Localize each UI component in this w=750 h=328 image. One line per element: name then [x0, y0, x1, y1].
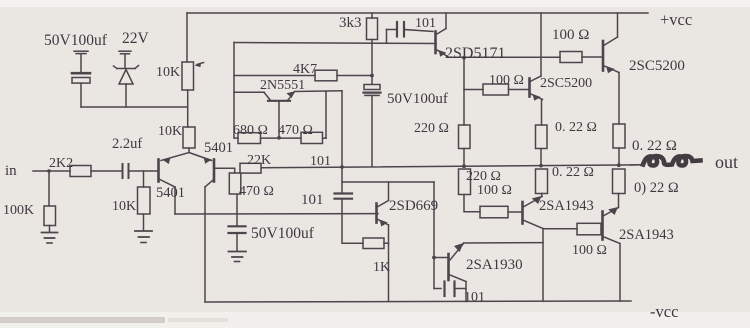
wire 0.22 to bus	[540, 149, 542, 167]
wire Q8 collector to rail	[619, 244, 621, 302]
svg-text:22K: 22K	[247, 153, 271, 168]
wire 220 to bus	[463, 149, 465, 167]
wire 680 left lead	[234, 137, 238, 139]
wire 2N5551 column to bus	[341, 91, 343, 167]
svg-text:680 Ω: 680 Ω	[233, 123, 268, 138]
svg-text:+vcc: +vcc	[660, 10, 692, 29]
scan artifact smudge	[0, 317, 228, 323]
wire 10K to emitters	[188, 148, 190, 153]
node bus junctions	[340, 163, 621, 169]
wire Q1 collector down	[174, 187, 176, 214]
svg-text:2.2uf: 2.2uf	[112, 136, 142, 152]
capacitor 50V100uf (diff tail)	[229, 195, 246, 251]
svg-text:out: out	[715, 152, 738, 172]
transistor Q9 2SD669	[377, 201, 389, 227]
resistor 0.22 (bottom right)	[613, 169, 626, 194]
ground (10K input)	[135, 231, 152, 243]
wire 470 right lead	[323, 137, 327, 139]
svg-text:1K: 1K	[373, 260, 390, 275]
resistor 100K	[44, 206, 56, 226]
transistor Q1 5401 (left diff)	[159, 153, 190, 188]
transistor Q10 2SA1930	[434, 243, 466, 282]
node input junction	[47, 169, 51, 173]
svg-text:2SC5200: 2SC5200	[540, 76, 592, 91]
svg-text:2SA1943: 2SA1943	[539, 198, 594, 214]
resistor 10K (diff tail)	[183, 127, 195, 148]
wire 101M to 1K	[342, 200, 363, 244]
resistor 470 (horizontal)	[301, 132, 323, 143]
wire 2SD5171 emitter row	[448, 56, 561, 58]
svg-text:50V100uf: 50V100uf	[251, 225, 315, 242]
svg-text:101: 101	[301, 192, 324, 208]
capacitor 101 (miller top)	[387, 22, 434, 43]
resistor 3k3 lead	[371, 13, 373, 18]
svg-text:50V100uf: 50V100uf	[387, 91, 448, 107]
wire output collector to rail	[617, 13, 619, 37]
capacitor 2.2uf	[123, 164, 129, 178]
svg-text:0. 22 Ω: 0. 22 Ω	[555, 120, 597, 135]
svg-text:5401: 5401	[204, 140, 233, 156]
svg-text:100K: 100K	[3, 203, 34, 218]
coil L1 output inductor	[643, 156, 701, 166]
wire -vcc bottom rail	[205, 301, 631, 302]
svg-text:0) 22 Ω: 0) 22 Ω	[634, 180, 679, 196]
resistor 100 (2SA1943 no.2 base)	[577, 223, 601, 235]
wire +vcc top rail	[187, 12, 648, 14]
wire Q9 emitter to rail	[388, 225, 390, 302]
svg-text:5401: 5401	[156, 185, 185, 201]
wire Q7 collector column	[542, 229, 544, 302]
svg-text:0. 22 Ω: 0. 22 Ω	[552, 165, 594, 180]
wire driver collector to rail	[540, 13, 542, 76]
svg-text:4K7: 4K7	[293, 62, 317, 77]
resistor 0.22 (bottom mid)	[536, 169, 548, 194]
transistor Q4 2SD5171	[436, 29, 448, 57]
svg-text:101: 101	[310, 154, 331, 169]
resistor 100 (output NPN base)	[560, 52, 582, 63]
wire VAS top (to 2SD5171 base)	[234, 43, 436, 44]
wire 2N5551 emitter row	[295, 90, 343, 93]
svg-text:470 Ω: 470 Ω	[278, 123, 313, 138]
resistor 100 (2SA1943 no.1 base)	[480, 206, 508, 218]
transistor Q3 2N5551 (VAS)	[234, 91, 295, 138]
svg-text:2SD5171: 2SD5171	[445, 45, 505, 62]
resistor 3k3	[367, 18, 378, 40]
wire Q2 collector down	[204, 187, 206, 302]
wire 0.22B2 to emitter	[618, 194, 620, 208]
svg-text:100 Ω: 100 Ω	[552, 27, 589, 43]
svg-text:10K: 10K	[112, 199, 136, 214]
ground (100K)	[42, 233, 58, 244]
wire 220B to 100B1	[464, 195, 480, 212]
wire zener/cap rail y107	[81, 106, 188, 108]
resistor 0.22 (output NPN emitter)	[613, 124, 625, 148]
wire bootstrap to bus	[371, 96, 373, 167]
wire 1K to emitter column	[384, 242, 389, 244]
wire bus to coil	[631, 164, 644, 167]
transistor Q6 2SC5200 (output NPN)	[603, 37, 619, 73]
svg-text:101: 101	[464, 290, 485, 305]
svg-text:22V: 22V	[122, 30, 150, 47]
wire 10K branch (after cap)	[143, 171, 145, 187]
wire driver base branch	[464, 58, 483, 90]
wire 100B1 to base	[508, 211, 523, 213]
resistor 1K	[363, 238, 384, 249]
wire 100B2 to base	[601, 228, 603, 230]
transistor Q7 2SA1943 (no.1)	[523, 196, 544, 229]
svg-text:220 Ω: 220 Ω	[466, 169, 501, 184]
node base junction	[432, 256, 436, 260]
wire left supply column top	[186, 13, 188, 62]
svg-text:100 Ω: 100 Ω	[489, 73, 524, 88]
resistor 100 (driver base)	[483, 84, 509, 95]
svg-text:220 Ω: 220 Ω	[414, 121, 449, 136]
svg-text:-vcc: -vcc	[650, 302, 678, 321]
resistor 0.22 (driver emitter)	[536, 125, 548, 149]
wire cap to base	[130, 170, 158, 172]
wire input	[33, 170, 70, 172]
svg-text:2K2: 2K2	[49, 156, 73, 171]
wire VAS left column	[233, 43, 235, 138]
wire 101M column	[341, 167, 343, 193]
resistor 2K2	[70, 166, 91, 177]
wire 0.22B1 to emitter	[541, 194, 544, 197]
resistor 680	[238, 133, 261, 144]
capacitor 50V100uf (bootstrap)	[364, 85, 381, 96]
zener diode 22V	[114, 51, 139, 107]
wire 3k3 down	[371, 40, 373, 85]
wire 2SD5171 collector to rail	[445, 13, 447, 29]
resistor 22K	[240, 163, 261, 173]
resistor 220 (top)	[459, 125, 471, 149]
svg-text:10K: 10K	[158, 124, 182, 139]
resistor 470 (vertical)	[229, 173, 241, 194]
wire 100K to ground	[49, 226, 51, 233]
capacitor 50V100uf (input supply)	[72, 51, 90, 107]
transistor Q8 2SA1943 (no.2)	[603, 207, 621, 244]
wire 100K branch	[48, 171, 50, 206]
wire Q7 collector to 100B2	[543, 228, 577, 230]
node emitter junction	[462, 56, 466, 60]
svg-text:470 Ω: 470 Ω	[239, 184, 274, 199]
svg-text:3k3: 3k3	[339, 15, 362, 31]
svg-text:2SA1943: 2SA1943	[619, 227, 674, 243]
wire 10K to ground	[143, 214, 145, 231]
wire emitter drop to 470	[325, 91, 327, 138]
resistor 10K (input bias)	[138, 187, 151, 214]
wire 680-470 link	[261, 137, 302, 139]
capacitor 101 (mid)	[335, 194, 353, 199]
svg-text:10K: 10K	[156, 65, 180, 80]
node 2N5551 emitter-resistor junction	[277, 136, 281, 140]
svg-text:100 Ω: 100 Ω	[572, 243, 607, 258]
svg-text:in: in	[5, 163, 17, 179]
wire 0.22 to bus	[618, 148, 620, 165]
wire Q10 emitter to rail	[465, 282, 467, 302]
wire 4K7 row	[234, 75, 315, 77]
svg-text:2SD669: 2SD669	[389, 198, 438, 214]
wire driver emitter to 0.22	[541, 100, 543, 126]
wire 4K7 to 3k3 column	[337, 75, 372, 77]
wire 2K2 to cap	[91, 170, 121, 172]
transistor Q5 2SC5200 (driver)	[530, 76, 543, 101]
wire 220 column	[463, 90, 465, 126]
wire bias row y182	[342, 181, 434, 183]
wire 470V top lead	[234, 168, 236, 173]
wire 2SA1930 base column	[433, 182, 435, 289]
svg-text:100 Ω: 100 Ω	[477, 183, 512, 198]
svg-text:0. 22 Ω: 0. 22 Ω	[632, 138, 677, 154]
wire left column mid	[187, 90, 189, 127]
wire output emitter to 0.22	[618, 73, 620, 125]
svg-text:2N5551: 2N5551	[260, 78, 305, 93]
ground (diff tail cap)	[229, 252, 247, 262]
svg-text:50V100uf: 50V100uf	[44, 32, 108, 49]
svg-text:2SA1930: 2SA1930	[466, 257, 523, 273]
potentiometer 10K (top)	[182, 62, 204, 90]
wire VAS feed y214	[175, 213, 378, 215]
wire 100 to driver base	[509, 89, 530, 91]
wire Q10 wire to Q7 column	[464, 242, 544, 244]
node 4K7/3k3 junction	[370, 74, 374, 78]
resistor 4K7	[315, 70, 337, 81]
resistor 220 (bottom)	[459, 169, 471, 195]
transistor Q2 5401 (right diff)	[189, 153, 234, 188]
wire output bus	[262, 165, 643, 168]
wire Q9 collector up	[388, 182, 390, 201]
svg-text:101: 101	[415, 16, 436, 31]
svg-text:2SC5200: 2SC5200	[629, 58, 685, 74]
wire 100 to output base	[582, 56, 603, 58]
capacitor 101 (bottom)	[434, 282, 466, 297]
